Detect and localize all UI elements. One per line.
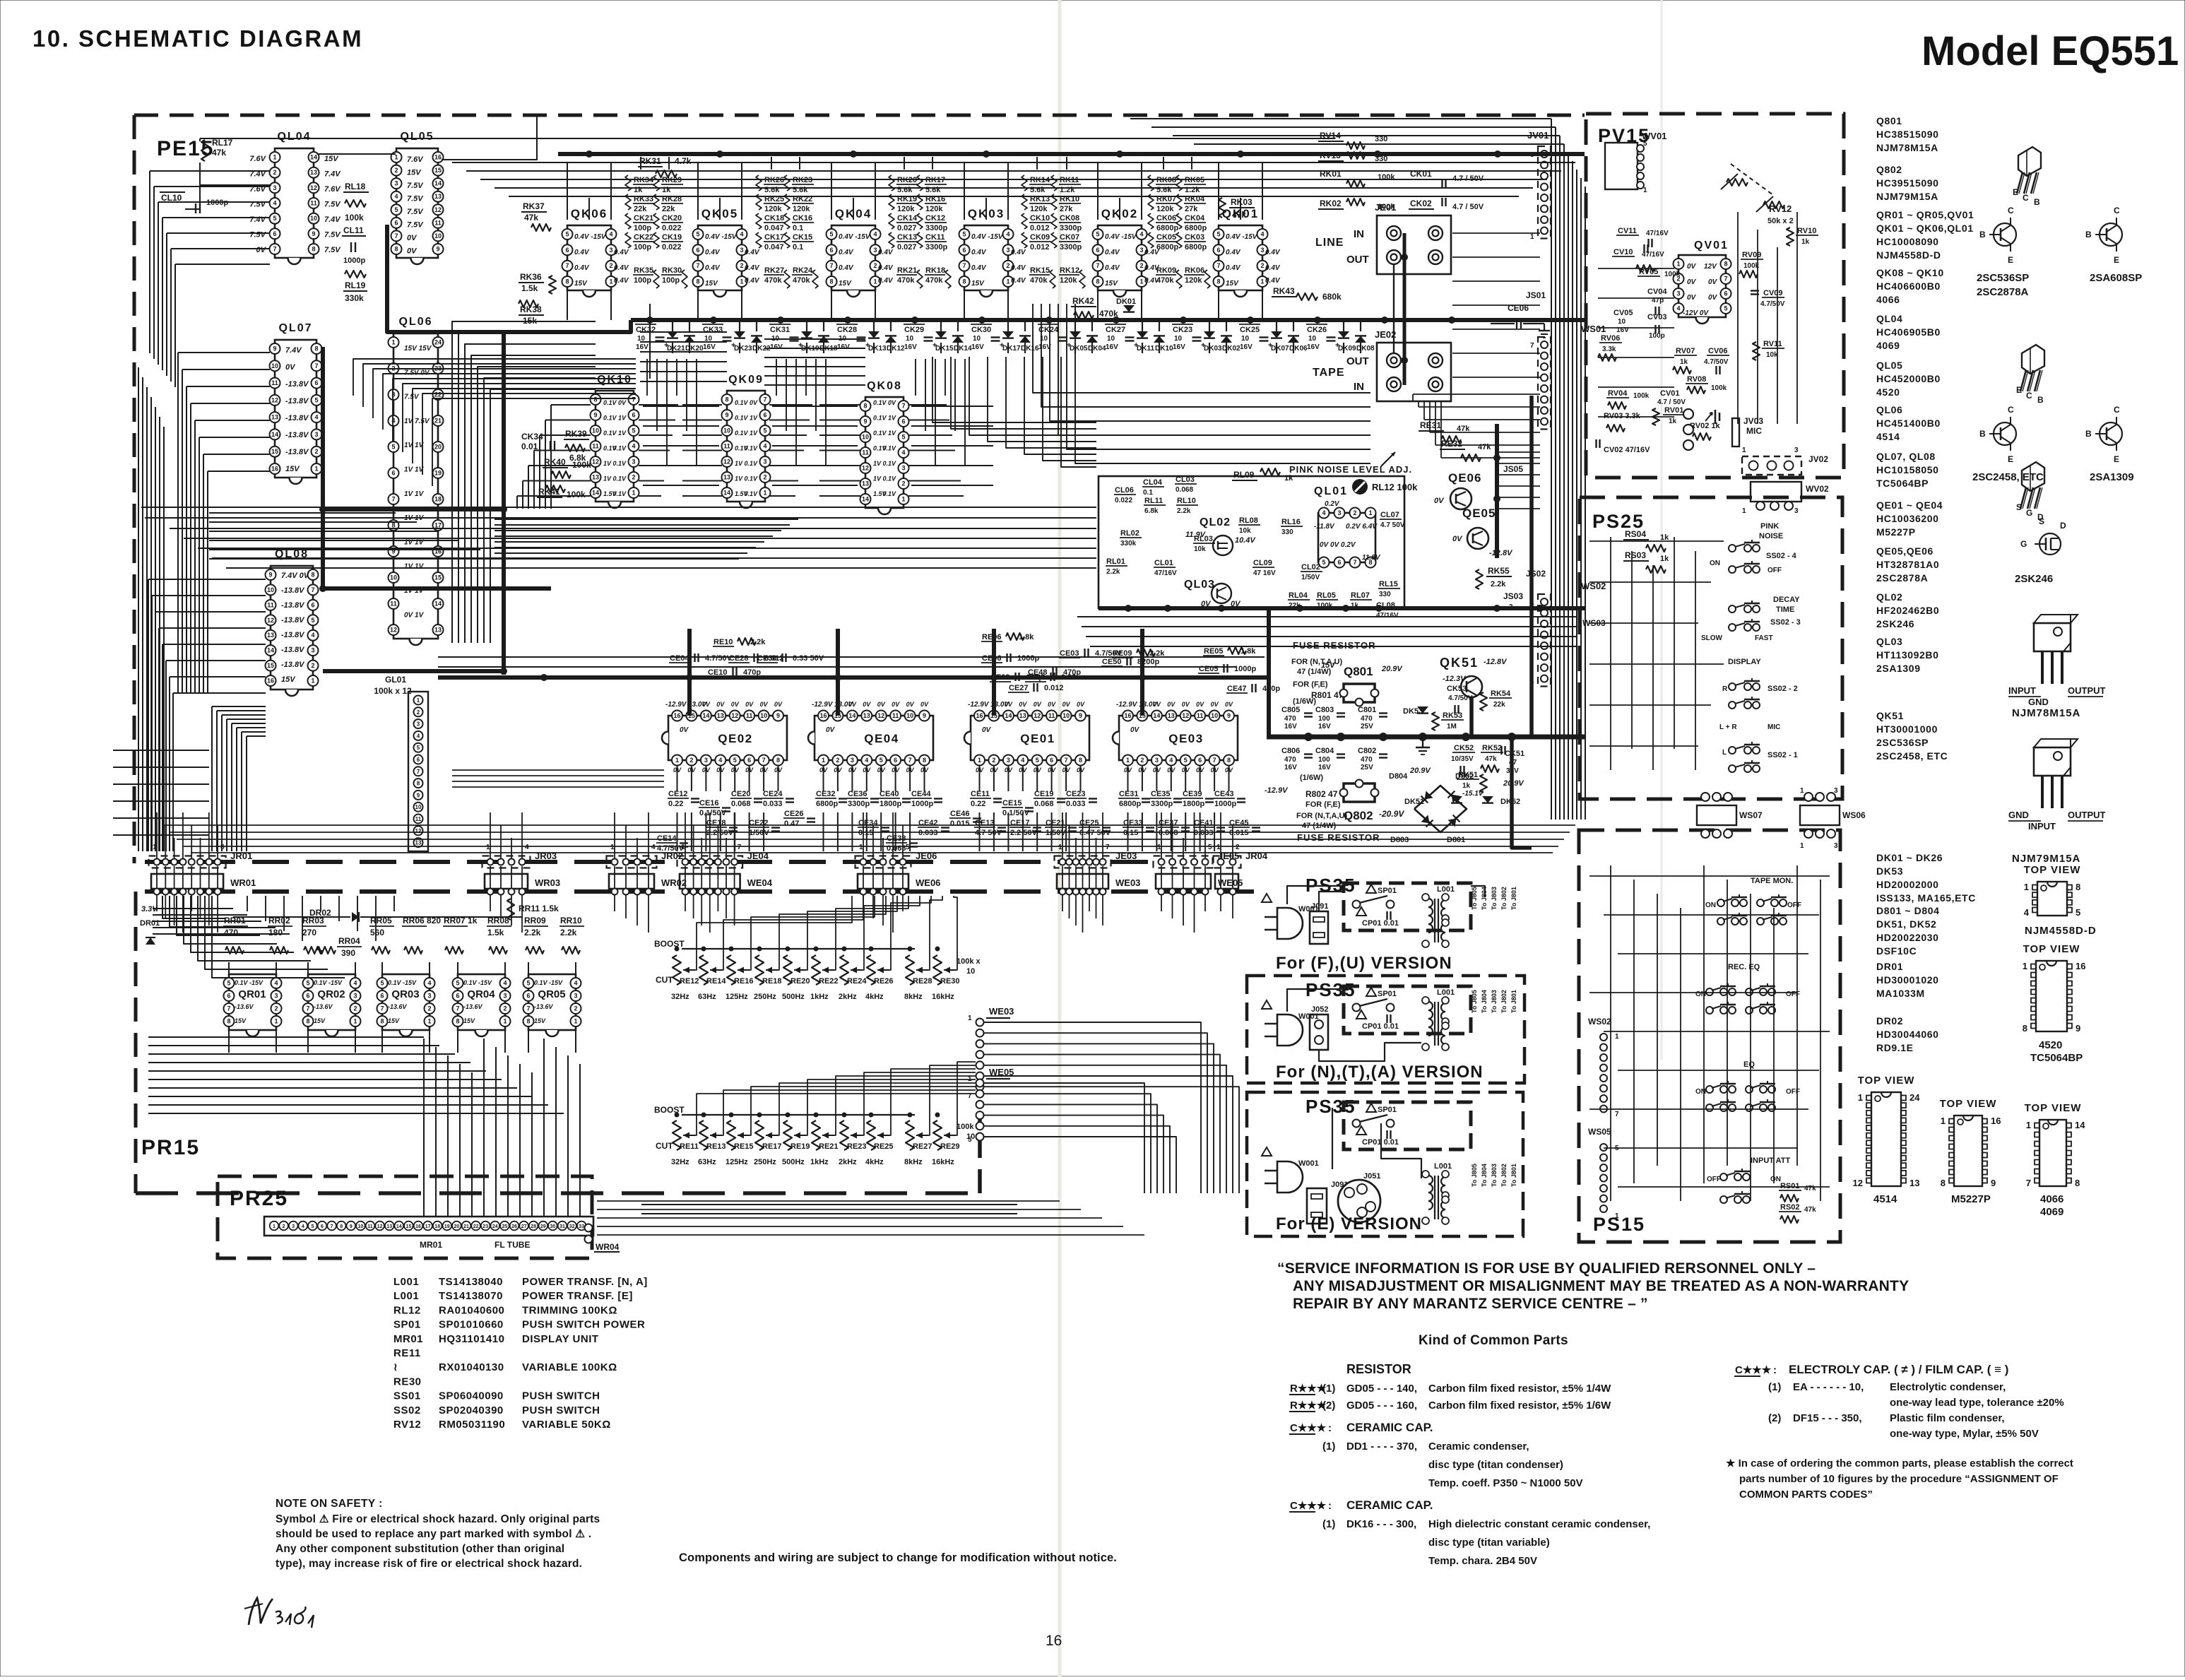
svg-text:4.7 / 50V: 4.7 / 50V <box>1657 398 1686 406</box>
svg-text:5: 5 <box>632 427 635 434</box>
svg-text:TOP VIEW: TOP VIEW <box>1858 1075 1915 1087</box>
svg-text:DSF10C: DSF10C <box>1876 945 1917 957</box>
svg-text:CK12: CK12 <box>925 214 945 223</box>
resistor RK43 <box>1296 293 1317 300</box>
svg-text:RE05: RE05 <box>1204 647 1224 656</box>
connector WS06 <box>1800 805 1840 825</box>
connector WR03 <box>485 874 528 889</box>
svg-text:4: 4 <box>901 449 905 456</box>
svg-text:RR09: RR09 <box>524 916 546 925</box>
svg-text:3: 3 <box>609 247 612 254</box>
svg-text:1: 1 <box>763 490 766 497</box>
svg-text:(1/6W): (1/6W) <box>1293 697 1316 706</box>
svg-text:6: 6 <box>391 470 395 477</box>
svg-text:FUSE RESISTOR: FUSE RESISTOR <box>1297 832 1380 843</box>
svg-text:Electrolytic condenser,: Electrolytic condenser, <box>1890 1381 2006 1393</box>
svg-text:15V: 15V <box>971 280 985 288</box>
svg-text:CL02: CL02 <box>1301 563 1320 572</box>
svg-text:6: 6 <box>314 379 318 386</box>
svg-text:0.1V -15V: 0.1V -15V <box>534 979 563 986</box>
svg-text:8: 8 <box>962 278 966 285</box>
svg-text:5: 5 <box>1208 844 1212 851</box>
svg-text:0V: 0V <box>906 701 915 708</box>
svg-text:DK01 ~ DK26: DK01 ~ DK26 <box>1876 852 1943 863</box>
svg-text:13: 13 <box>1909 1178 1919 1188</box>
svg-text:18: 18 <box>434 1224 440 1229</box>
svg-text:PUSH SWITCH POWER: PUSH SWITCH POWER <box>522 1319 645 1331</box>
svg-text:16kHz: 16kHz <box>932 1158 954 1166</box>
connector J051 round <box>1338 1180 1380 1222</box>
svg-text:14: 14 <box>267 647 274 654</box>
svg-text:CE46: CE46 <box>950 810 970 818</box>
svg-text:0.022: 0.022 <box>662 224 682 232</box>
svg-text:0.1V: 0.1V <box>744 490 758 497</box>
svg-text:7.5V: 7.5V <box>324 201 341 209</box>
svg-text:QE05: QE05 <box>1462 507 1496 520</box>
svg-text:1k: 1k <box>1462 782 1471 790</box>
board outline PS15 <box>1579 830 1840 1242</box>
svg-text:1: 1 <box>2026 1120 2031 1130</box>
svg-text:470: 470 <box>1284 715 1296 723</box>
svg-text:-13.8V: -13.8V <box>285 414 309 422</box>
svg-text:CK53: CK53 <box>1447 685 1467 693</box>
svg-text:1: 1 <box>1742 446 1746 454</box>
svg-text:0.1V: 0.1V <box>603 430 617 437</box>
svg-text:33: 33 <box>579 1224 584 1229</box>
svg-text:HC452000B0: HC452000B0 <box>1876 373 1941 384</box>
svg-text:47 16V: 47 16V <box>1253 569 1276 577</box>
svg-text:1.8k: 1.8k <box>1019 633 1034 641</box>
svg-text:0V: 0V <box>745 701 754 708</box>
svg-text:QL05: QL05 <box>400 131 434 143</box>
svg-text:-13.8V: -13.8V <box>281 661 305 669</box>
svg-text:3: 3 <box>632 459 635 466</box>
svg-text:13: 13 <box>592 474 599 481</box>
svg-text:-15.1V: -15.1V <box>1462 790 1484 798</box>
svg-text:4: 4 <box>314 414 318 421</box>
svg-text:CK17: CK17 <box>764 233 784 242</box>
svg-text:VARIABLE 100KΩ: VARIABLE 100KΩ <box>522 1361 617 1373</box>
svg-text:250Hz: 250Hz <box>754 1158 776 1166</box>
svg-text:47 (1/4W): 47 (1/4W) <box>1302 822 1337 830</box>
svg-text:ON: ON <box>1770 1176 1781 1183</box>
svg-text:POWER TRANSF. [E]: POWER TRANSF. [E] <box>522 1290 633 1302</box>
svg-text:RV08: RV08 <box>1687 375 1706 384</box>
svg-text:-12.9V: -12.9V <box>1116 701 1138 709</box>
switch SP01 box (E) <box>1344 1102 1471 1149</box>
svg-text:9: 9 <box>776 712 780 719</box>
svg-text:4: 4 <box>302 1224 304 1229</box>
svg-text:DK17: DK17 <box>1002 345 1021 353</box>
svg-text:2: 2 <box>740 262 743 269</box>
svg-text:330: 330 <box>1281 528 1293 536</box>
connector WR02 <box>609 874 654 889</box>
svg-text:8: 8 <box>725 396 728 403</box>
svg-text:16V: 16V <box>1173 343 1185 351</box>
svg-text:0.4V: 0.4V <box>839 249 854 256</box>
svg-text:6: 6 <box>1198 757 1202 764</box>
svg-text:RE06: RE06 <box>982 633 1002 641</box>
svg-text:4.7/50V: 4.7/50V <box>1760 300 1785 308</box>
switch SP01 box (N),(T),(A) <box>1344 986 1471 1034</box>
wire harness right columns <box>1551 119 1552 820</box>
svg-text:SP02040390: SP02040390 <box>439 1404 504 1416</box>
svg-text:10: 10 <box>1241 335 1250 343</box>
svg-text:RE20: RE20 <box>790 977 810 986</box>
svg-text:SP01010660: SP01010660 <box>439 1319 504 1331</box>
svg-text:RE10: RE10 <box>713 638 733 646</box>
svg-text:2kHz: 2kHz <box>839 993 857 1001</box>
connector JR03 <box>482 856 531 868</box>
svg-text:DK02: DK02 <box>1222 345 1240 353</box>
svg-text:4: 4 <box>574 980 577 987</box>
svg-text:FOR (F,E): FOR (F,E) <box>1293 680 1328 689</box>
svg-text:E: E <box>2013 187 2018 197</box>
svg-text:2SK246: 2SK246 <box>2015 573 2053 585</box>
svg-text:63Hz: 63Hz <box>698 1158 716 1166</box>
svg-text:47k: 47k <box>1485 755 1497 763</box>
wires PS35 (E) <box>1332 1108 1333 1169</box>
svg-text:7: 7 <box>526 1005 530 1012</box>
svg-text:6: 6 <box>829 247 833 254</box>
wire QK51 emitter bold <box>1469 697 1474 737</box>
svg-text:12: 12 <box>1182 712 1189 719</box>
svg-text:8: 8 <box>829 278 833 285</box>
svg-text:10: 10 <box>1211 712 1218 719</box>
svg-text:SP01: SP01 <box>1378 887 1397 895</box>
svg-text:15V: 15V <box>839 280 852 288</box>
svg-text:2.2k: 2.2k <box>1491 580 1506 588</box>
svg-text:CV02 47/16V: CV02 47/16V <box>1604 446 1650 454</box>
svg-text:CP01 0.01: CP01 0.01 <box>1362 919 1399 928</box>
svg-text:6: 6 <box>526 993 530 1000</box>
svg-text:500Hz: 500Hz <box>782 1158 805 1166</box>
IC QK05 <box>698 225 742 290</box>
svg-text:CV11: CV11 <box>1618 227 1637 235</box>
svg-text:C: C <box>2008 206 2014 215</box>
svg-text:2: 2 <box>609 262 612 269</box>
svg-text:-13.8V: -13.8V <box>285 431 309 439</box>
svg-text:CK11: CK11 <box>925 233 945 242</box>
IC QL05 <box>396 148 438 258</box>
svg-text:0.1V: 0.1V <box>735 399 749 406</box>
svg-text:3.3k: 3.3k <box>1602 345 1616 353</box>
IC QK06 <box>567 225 611 290</box>
svg-text:120k: 120k <box>1030 205 1048 213</box>
svg-text:2: 2 <box>836 757 839 764</box>
svg-text:B: B <box>2085 429 2092 439</box>
svg-text:4: 4 <box>427 980 431 987</box>
svg-text:E: E <box>2114 255 2119 265</box>
svg-text:9: 9 <box>350 1224 353 1229</box>
svg-text:560: 560 <box>370 928 384 937</box>
svg-text:JS03: JS03 <box>1503 591 1523 601</box>
svg-text:Temp. chara. 2B4 50V: Temp. chara. 2B4 50V <box>1428 1555 1537 1567</box>
svg-text:7: 7 <box>1724 276 1727 283</box>
svg-text:8: 8 <box>1724 261 1727 268</box>
svg-text:QE01: QE01 <box>1020 732 1055 745</box>
svg-text:6: 6 <box>306 993 309 1000</box>
svg-text:47k: 47k <box>212 148 226 158</box>
svg-text:2: 2 <box>311 662 314 669</box>
svg-text:CK27: CK27 <box>1106 326 1125 334</box>
svg-text:120k: 120k <box>1156 205 1174 213</box>
svg-text:CL10: CL10 <box>161 193 182 203</box>
svg-text:CE26: CE26 <box>784 810 804 818</box>
svg-text:100k: 100k <box>567 490 586 499</box>
svg-text:4: 4 <box>1322 509 1325 516</box>
svg-text:CK19: CK19 <box>662 233 682 242</box>
svg-text:RV12: RV12 <box>393 1419 421 1431</box>
bridge rectifier D801-D804 <box>1414 786 1467 832</box>
connector bus (bold dashed) <box>145 860 1159 864</box>
svg-text:RV07: RV07 <box>1676 347 1695 355</box>
svg-text:QE02: QE02 <box>718 732 752 745</box>
svg-text:EQ: EQ <box>1743 1060 1755 1069</box>
svg-text:6: 6 <box>1050 757 1053 764</box>
svg-text:9: 9 <box>1227 712 1231 719</box>
svg-text:RE11: RE11 <box>680 1142 699 1151</box>
svg-text:0V: 0V <box>774 701 783 708</box>
svg-text:0.027: 0.027 <box>897 243 917 252</box>
svg-text:5: 5 <box>1216 231 1220 238</box>
svg-text:CE13: CE13 <box>975 819 995 827</box>
svg-text:8: 8 <box>311 572 314 579</box>
svg-text:6.8k: 6.8k <box>1144 507 1159 515</box>
svg-text:disc type (titan variable): disc type (titan variable) <box>1428 1537 1550 1549</box>
bus pink-noise bold <box>1099 606 1585 610</box>
svg-text:3: 3 <box>503 993 507 1000</box>
svg-text:4: 4 <box>311 632 314 639</box>
svg-text:3: 3 <box>1834 787 1838 795</box>
svg-text:0V: 0V <box>1196 701 1204 708</box>
svg-text:ISS133, MA165,ETC: ISS133, MA165,ETC <box>1876 892 1976 904</box>
svg-text:SS02 - 2: SS02 - 2 <box>1767 685 1798 693</box>
svg-text:Ceramic condenser,: Ceramic condenser, <box>1428 1441 1529 1453</box>
svg-text:QE04: QE04 <box>864 732 899 745</box>
svg-text:0V: 0V <box>716 701 725 708</box>
svg-text:-13.6V: -13.6V <box>388 1003 408 1010</box>
svg-text:10: 10 <box>1062 712 1070 719</box>
svg-text:-13.6V: -13.6V <box>314 1003 333 1010</box>
svg-text:C804: C804 <box>1315 747 1334 755</box>
bus top bold <box>558 152 1585 156</box>
svg-text:10/35V: 10/35V <box>1451 755 1474 763</box>
svg-text:DISPLAY: DISPLAY <box>1728 658 1761 666</box>
svg-text:0.1V: 0.1V <box>882 475 896 483</box>
svg-text:7: 7 <box>1353 559 1356 566</box>
svg-text:2SC536SP: 2SC536SP <box>1977 272 2029 284</box>
svg-text:100k x: 100k x <box>957 957 981 966</box>
svg-text:7: 7 <box>1615 1111 1619 1118</box>
svg-text:RX01040130: RX01040130 <box>439 1361 504 1373</box>
svg-text:15V: 15V <box>1105 280 1118 288</box>
connector JR04 <box>1213 856 1241 868</box>
svg-text:1: 1 <box>1139 278 1143 285</box>
svg-text:CK16: CK16 <box>793 214 812 223</box>
svg-text:120k: 120k <box>1060 276 1077 285</box>
svg-text:CERAMIC CAP.: CERAMIC CAP. <box>1346 1498 1433 1512</box>
svg-text:0.4V: 0.4V <box>878 277 894 285</box>
svg-text:120k: 120k <box>764 205 782 213</box>
svg-text:Symbol ⚠ Fire or electrical sh: Symbol ⚠ Fire or electrical shock hazard… <box>276 1513 600 1525</box>
svg-text:J051: J051 <box>1363 1172 1380 1181</box>
svg-text:1800p: 1800p <box>880 800 901 808</box>
svg-text:RK35: RK35 <box>634 266 653 275</box>
svg-text:C803: C803 <box>1315 706 1334 714</box>
svg-text:CE24: CE24 <box>763 790 783 798</box>
connector JE06 <box>855 856 911 868</box>
svg-text:7: 7 <box>2026 1178 2031 1188</box>
svg-text:DK05: DK05 <box>1070 345 1088 353</box>
svg-text:0.4V: 0.4V <box>745 277 760 285</box>
svg-text:(1): (1) <box>1322 1383 1335 1395</box>
svg-text:11: 11 <box>267 601 274 608</box>
svg-text:1: 1 <box>417 697 420 704</box>
resistor RL17 <box>201 140 208 161</box>
svg-text:5: 5 <box>880 757 883 764</box>
svg-text:CE12: CE12 <box>668 790 688 798</box>
svg-text:12: 12 <box>862 465 869 472</box>
svg-text:2.2k: 2.2k <box>1106 568 1120 576</box>
svg-text:1V 1V: 1V 1V <box>404 563 425 571</box>
svg-text:should be used to replace any: should be used to replace any part marke… <box>276 1528 591 1540</box>
svg-text:HF202462B0: HF202462B0 <box>1876 605 1939 616</box>
svg-text:7.5V: 7.5V <box>407 195 424 203</box>
svg-text:2: 2 <box>1139 262 1143 269</box>
svg-text:1: 1 <box>968 1014 972 1022</box>
svg-text:DK15: DK15 <box>935 345 954 353</box>
svg-text:L + R: L + R <box>1719 723 1737 731</box>
svg-text:0.4V -15V: 0.4V -15V <box>705 233 738 241</box>
svg-text:-13.8V: -13.8V <box>281 631 305 639</box>
svg-text:0.4V -15V: 0.4V -15V <box>1105 233 1137 241</box>
connector JR02 <box>607 856 657 868</box>
svg-text:0V: 0V <box>1687 294 1697 302</box>
svg-text:0.1V -15V: 0.1V -15V <box>463 979 492 986</box>
svg-text:330: 330 <box>1379 591 1391 598</box>
svg-text:0.1V: 0.1V <box>735 415 749 422</box>
svg-text:NJM78M15A: NJM78M15A <box>2012 707 2080 719</box>
svg-text:OFF: OFF <box>1786 1088 1800 1096</box>
svg-text:7.5V 0V: 7.5V 0V <box>404 369 430 377</box>
svg-text:125Hz: 125Hz <box>726 1158 748 1166</box>
svg-text:0V: 0V <box>1687 278 1697 286</box>
svg-text:DK53: DK53 <box>1876 865 1903 877</box>
svg-text:3: 3 <box>1794 507 1799 515</box>
wire harness PR15 top <box>247 896 248 911</box>
svg-text:4: 4 <box>525 844 529 851</box>
wire QL06 0V bold <box>321 347 325 588</box>
svg-text:DK13: DK13 <box>868 345 887 353</box>
svg-text:0.4V: 0.4V <box>1265 277 1281 285</box>
pink noise block outline <box>1099 476 1404 608</box>
svg-text:9: 9 <box>436 246 439 253</box>
svg-text:RK43: RK43 <box>1273 286 1295 296</box>
svg-text:CL04: CL04 <box>1143 478 1163 487</box>
svg-text:1k: 1k <box>634 186 643 194</box>
svg-text:16: 16 <box>1124 712 1131 719</box>
svg-text:CK51: CK51 <box>1505 750 1524 758</box>
svg-text:1: 1 <box>1941 1116 1946 1126</box>
svg-text:CP01 0.01: CP01 0.01 <box>1362 1022 1399 1031</box>
svg-text:(2): (2) <box>1768 1412 1781 1424</box>
svg-text:RL19: RL19 <box>345 280 366 290</box>
svg-text:2: 2 <box>1006 262 1009 269</box>
svg-text:0.1V: 0.1V <box>744 445 758 452</box>
svg-text:2: 2 <box>992 757 995 764</box>
svg-text:0.33 50V: 0.33 50V <box>793 654 824 663</box>
svg-text:15V: 15V <box>463 1017 475 1024</box>
svg-text:3: 3 <box>274 993 278 1000</box>
svg-text:1.8k: 1.8k <box>1240 647 1256 656</box>
svg-text:DK09: DK09 <box>1338 345 1356 353</box>
svg-text:CL03: CL03 <box>1176 475 1195 484</box>
svg-text:WE06: WE06 <box>916 877 940 888</box>
svg-text:D: D <box>2060 521 2066 531</box>
svg-text:2.2k: 2.2k <box>750 638 766 646</box>
svg-text:1: 1 <box>503 1018 507 1025</box>
svg-text:8: 8 <box>227 1018 230 1025</box>
svg-text:8: 8 <box>394 246 398 253</box>
svg-text:TOP VIEW: TOP VIEW <box>2024 864 2081 876</box>
svg-text:16: 16 <box>434 154 442 161</box>
svg-text:RK36: RK36 <box>520 272 542 282</box>
svg-text:HQ31101410: HQ31101410 <box>439 1333 504 1345</box>
svg-text:100p: 100p <box>634 243 651 252</box>
svg-text:0.4V: 0.4V <box>971 264 987 272</box>
svg-text:100k: 100k <box>1378 203 1395 211</box>
svg-text:JS02: JS02 <box>1526 569 1546 579</box>
svg-text::: : <box>1328 1500 1332 1512</box>
svg-text:19: 19 <box>444 1224 450 1229</box>
svg-text:type), may increase risk o: type), may increase risk of fire or elec… <box>276 1558 582 1570</box>
svg-text:1V 1V: 1V 1V <box>404 466 425 474</box>
svg-text:9: 9 <box>312 230 315 237</box>
svg-text:DK14: DK14 <box>954 345 972 353</box>
package drawing 2SC536SP / 2SA608SP <box>2018 147 2041 176</box>
svg-text:0.068: 0.068 <box>1176 486 1193 494</box>
svg-text:47/16V: 47/16V <box>1646 230 1669 237</box>
connector JR01 <box>149 856 226 868</box>
svg-text:Q801: Q801 <box>1344 665 1373 678</box>
svg-text:15V: 15V <box>324 155 339 163</box>
svg-text:NJM79M15A: NJM79M15A <box>1876 191 1938 202</box>
svg-text:0V: 0V <box>877 701 886 708</box>
svg-text:JV03: JV03 <box>1743 416 1763 426</box>
handwritten mark M3181 <box>249 1598 273 1625</box>
svg-text:100k x 12: 100k x 12 <box>374 686 412 696</box>
svg-text:PS15: PS15 <box>1593 1214 1645 1235</box>
svg-text:15V: 15V <box>235 1017 247 1024</box>
svg-text:RL04: RL04 <box>1289 591 1308 600</box>
svg-text:1: 1 <box>632 490 635 497</box>
svg-text:Components and wiring are subj: Components and wiring are subject to cha… <box>679 1551 1117 1564</box>
svg-text:TAPE MON.: TAPE MON. <box>1751 877 1793 885</box>
svg-text:13: 13 <box>310 169 317 176</box>
svg-text:17: 17 <box>425 1224 431 1229</box>
svg-text:QE03: QE03 <box>1168 732 1203 745</box>
svg-text:4: 4 <box>2024 907 2030 918</box>
svg-text:22: 22 <box>473 1224 479 1229</box>
svg-text:1.5k: 1.5k <box>487 928 504 937</box>
svg-text:10.4V: 10.4V <box>1235 536 1256 545</box>
wire QK10 pins fan <box>551 404 591 406</box>
svg-text:8: 8 <box>380 1018 384 1025</box>
svg-text:14: 14 <box>271 431 278 438</box>
svg-text:1k: 1k <box>1284 474 1293 483</box>
svg-text:C: C <box>2114 405 2120 415</box>
